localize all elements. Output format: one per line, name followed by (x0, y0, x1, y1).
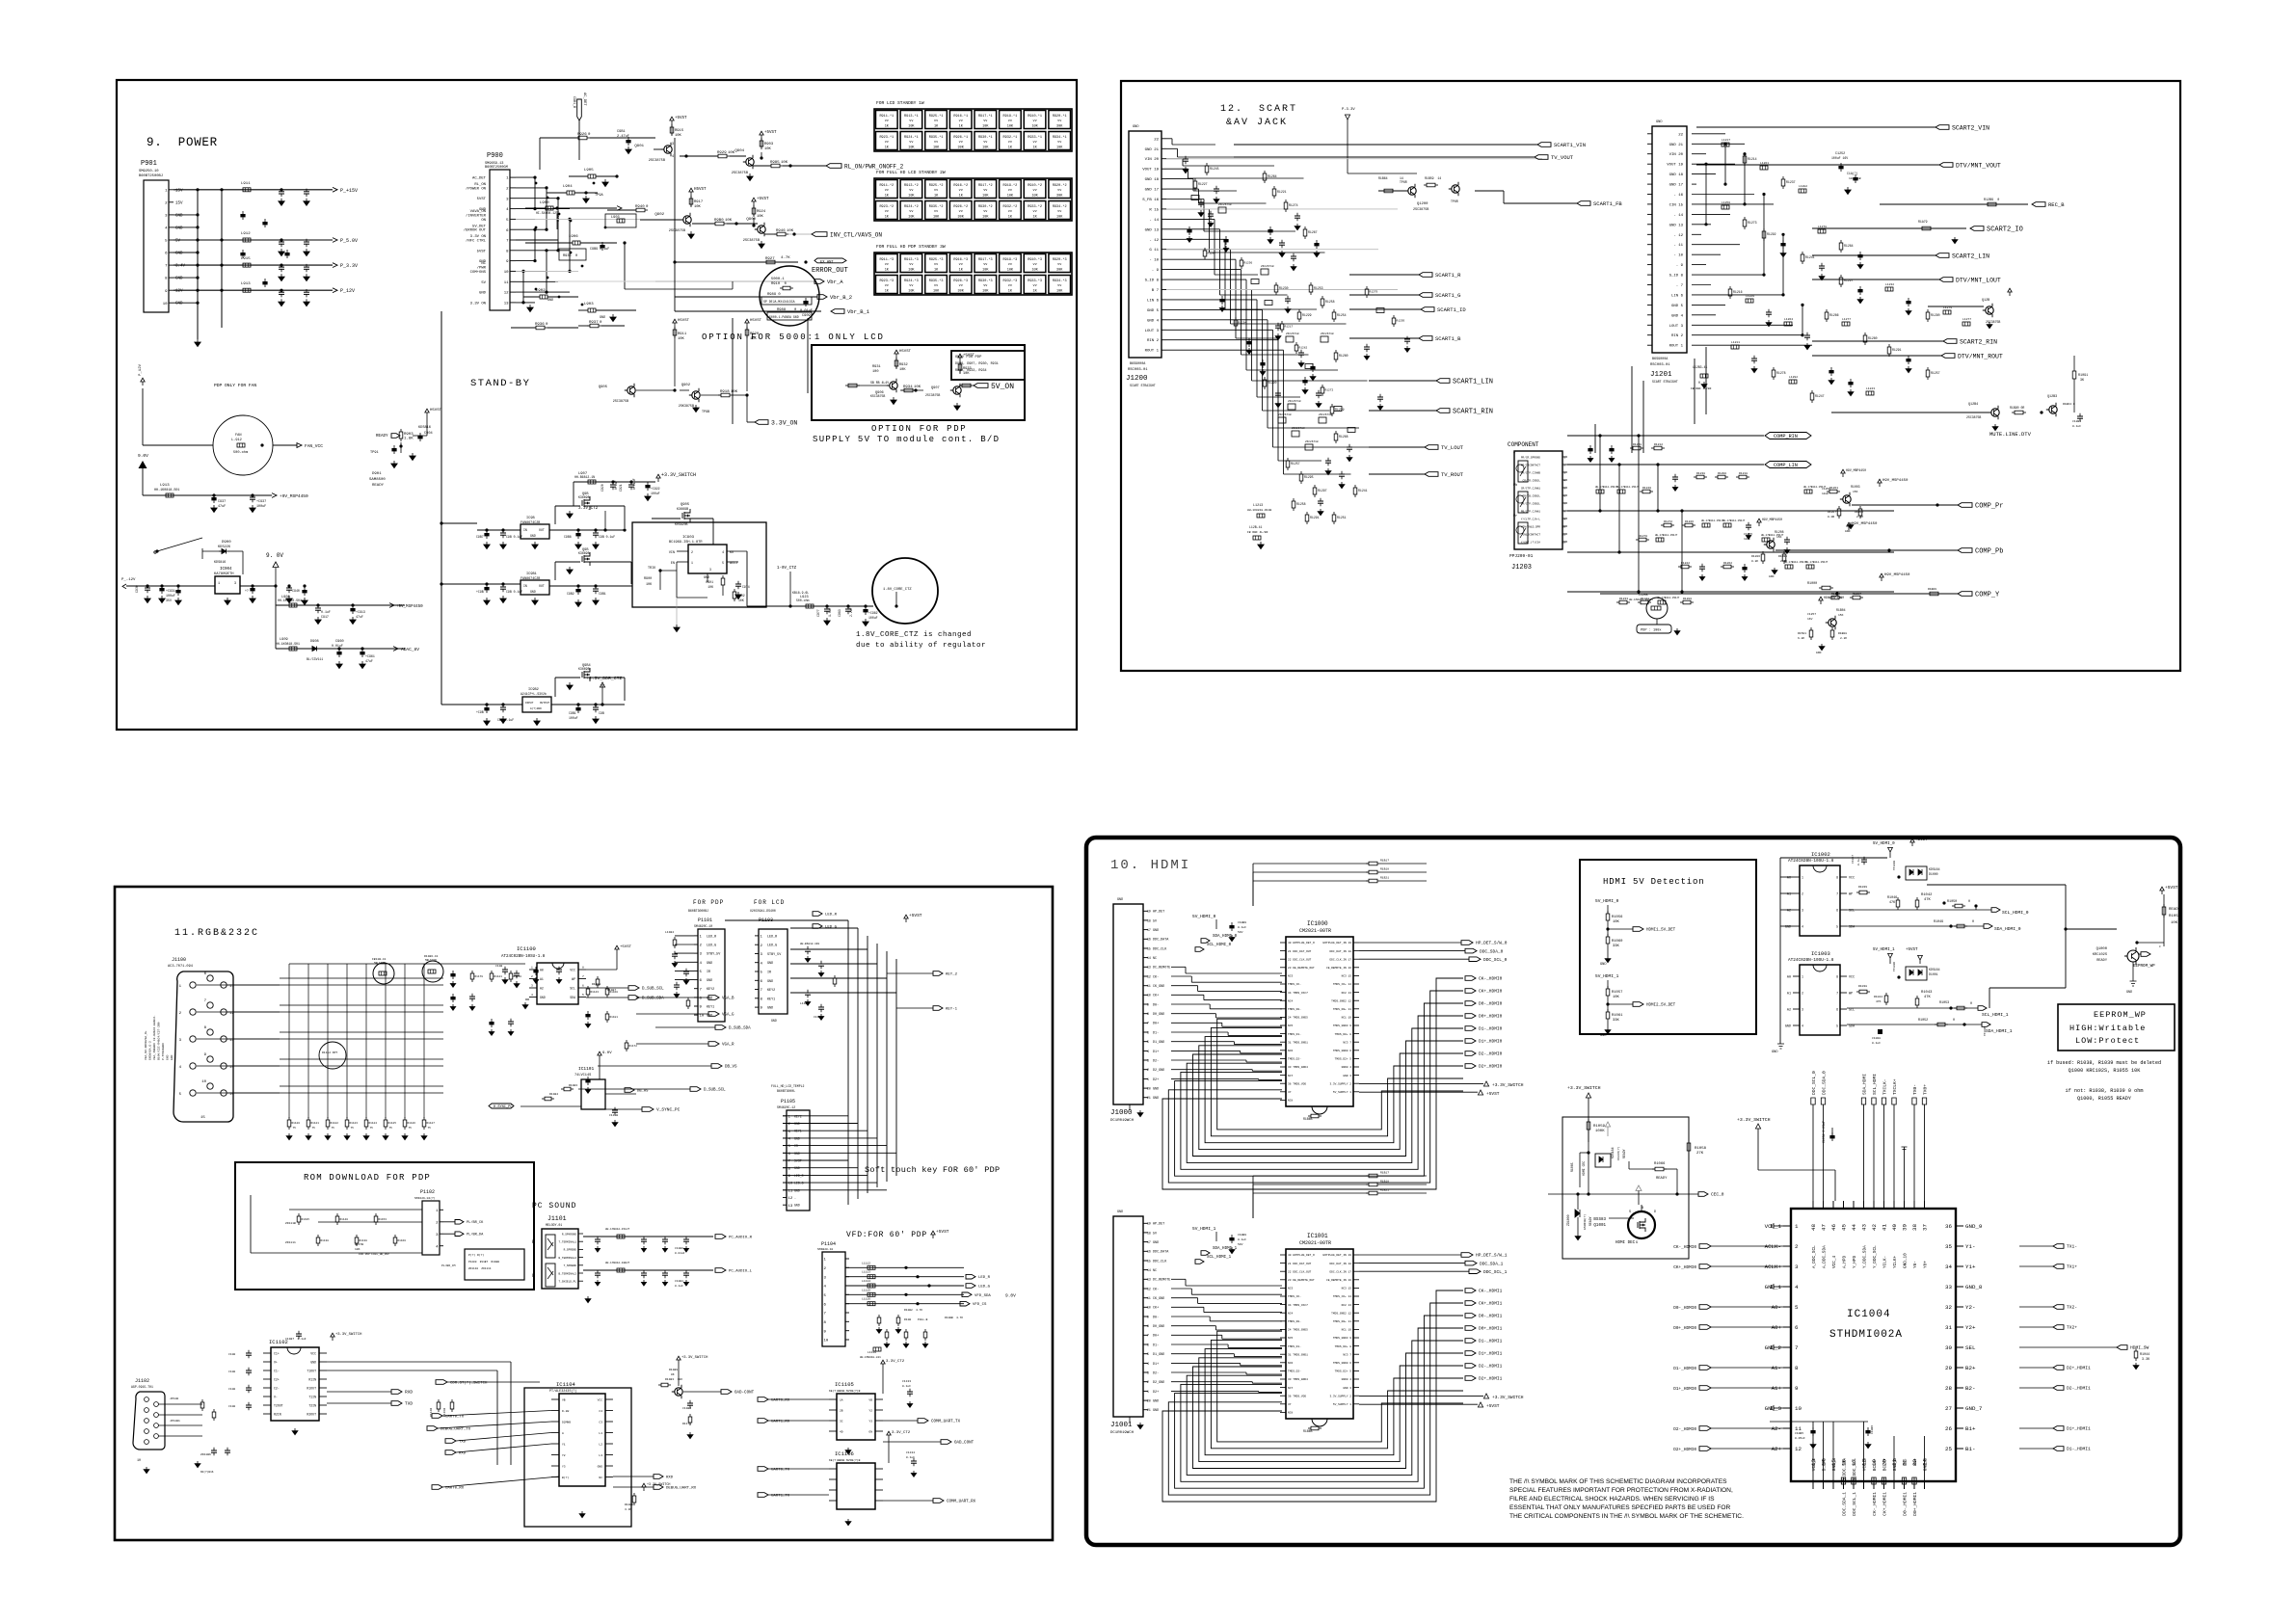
svg-text:R901: R901 (706, 580, 713, 584)
power 3.3V switch IC1004 (1737, 1117, 1835, 1201)
svg-text:SDA_HDMI_1: SDA_HDMI_1 (1213, 1247, 1238, 1251)
svg-text:KDS184: KDS184 (1611, 1147, 1615, 1158)
svg-text:KEY2: KEY2 (767, 989, 775, 993)
svg-text:10. HDMI: 10. HDMI (1110, 858, 1190, 873)
power 3.3V switch 0 (1359, 1081, 1524, 1088)
svg-text:P_+15V: P_+15V (340, 188, 358, 194)
svg-text:10: 10 (504, 271, 509, 275)
svg-text:IC9B1: IC9B1 (526, 572, 537, 576)
svg-text:+5VST: +5VST (936, 1229, 949, 1235)
svg-text:D2-_HDMI0: D2-_HDMI0 (1479, 1051, 1503, 1057)
svg-text:GND 13: GND 13 (1145, 228, 1160, 232)
capacitor C930 C931 (135, 584, 181, 604)
svg-text:NC5: NC5 (1288, 1024, 1293, 1027)
svg-text:C1134: C1134 (906, 1451, 915, 1454)
mosfet Q911 block3 (555, 664, 625, 701)
net SCART1_LIN (1369, 379, 1493, 386)
svg-text:D2_GND: D2_GND (1153, 1381, 1164, 1385)
svg-text:STBY_5V: STBY_5V (707, 953, 721, 957)
svg-text:GND: GND (1845, 530, 1851, 533)
svg-text:15K: 15K (1853, 491, 1858, 493)
svg-text:DB_VS: DB_VS (725, 1066, 737, 1070)
svg-text:ACLK-: ACLK- (1765, 1243, 1781, 1250)
svg-text:TP6R: TP6R (1400, 180, 1407, 184)
net D2-_HDMI1 (1465, 1364, 1503, 1370)
svg-text:GND 4: GND 4 (1671, 314, 1684, 318)
svg-text:H5VST: H5VST (430, 409, 442, 412)
svg-text:C11B7 0.1uF: C11B7 0.1uF (285, 1338, 307, 1341)
svg-text:75: 75 (312, 1127, 316, 1130)
svg-text:7: 7 (1147, 1334, 1149, 1338)
net pills IC1106 (758, 1467, 976, 1526)
svg-text:C1054 0.05uF: C1054 0.05uF (1822, 1121, 1826, 1143)
svg-text:33: 33 (1945, 1284, 1952, 1290)
svg-text:HH-17B012-15DJT: HH-17B012-15DJT (1784, 561, 1807, 564)
svg-text:GND_1: GND_1 (1765, 1284, 1782, 1290)
svg-text:TMDS_D2-: TMDS_D2- (1288, 1058, 1301, 1061)
table FOR LCD STANDBY 1W (874, 100, 1072, 151)
svg-text:vv: vv (1008, 141, 1012, 145)
svg-text:R936: R936 (535, 323, 545, 327)
svg-text:C3: C3 (599, 1422, 602, 1424)
svg-text:LED_R: LED_R (794, 1174, 804, 1178)
net DDC_SDA_0 (1359, 948, 1504, 954)
svg-text:LED_G: LED_G (707, 945, 716, 948)
svg-text:VGA_R2-GND&VGA_R+: VGA_R2-GND&VGA_R+ (145, 1030, 147, 1060)
net SCL_HDMI_0 pill (1991, 908, 2029, 916)
transistor Q1204 mute (1831, 395, 2083, 438)
svg-text:R1044: R1044 (1874, 996, 1882, 998)
power 5VST 0 (1359, 1090, 1500, 1097)
svg-text:HOTPLUG_DET_IN 19: HOTPLUG_DET_IN 19 (1323, 942, 1352, 945)
svg-text:R903: R903 (764, 143, 774, 146)
wire bus to option PDP (625, 288, 733, 290)
wire mesh component section (1567, 434, 1894, 593)
svg-text:30K: 30K (1056, 125, 1063, 129)
net +2.5V_DDR_CTZ (586, 676, 623, 706)
svg-text:TV_LOUT: TV_LOUT (1441, 444, 1464, 451)
svg-text:LED_R: LED_R (767, 935, 777, 939)
svg-text:/POWER ON: /POWER ON (466, 186, 487, 191)
svg-text:R917-*1: R917-*1 (978, 114, 993, 119)
svg-text:15: 15 (1147, 946, 1151, 950)
svg-text:OAD-CONT: OAD-CONT (734, 1392, 755, 1396)
svg-text:VCC: VCC (1849, 976, 1855, 980)
svg-text:48: 48 (1810, 1223, 1817, 1230)
panel 10 HDMI border (1086, 838, 2180, 1545)
svg-text:R932-*1: R932-*1 (1003, 135, 1018, 140)
svg-text:T1OUT: T1OUT (307, 1370, 316, 1373)
svg-text:PDP ONLY FOR FAN: PDP ONLY FOR FAN (214, 383, 256, 388)
svg-text:L903: L903 (611, 216, 620, 220)
net pills IC1104 left (427, 1380, 559, 1491)
svg-text:GND: GND (1153, 1097, 1159, 1101)
svg-text:CK-_HDMI1: CK-_HDMI1 (1479, 1289, 1503, 1294)
regulator IC904 KA7809ETH (214, 568, 307, 605)
svg-text:CK+: CK+ (1153, 995, 1159, 998)
svg-text:R1227: R1227 (1198, 182, 1208, 186)
svg-text:BSS83: BSS83 (1593, 1218, 1606, 1222)
svg-text:30K: 30K (958, 146, 965, 150)
net SCART1_VIN (1234, 142, 1586, 148)
svg-text:R913-*3: R913-*3 (904, 257, 919, 262)
svg-text:C1-: C1- (274, 1370, 280, 1373)
svg-text:Q905: Q905 (681, 503, 690, 507)
svg-text:R1181: R1181 (610, 1016, 619, 1019)
net INV_CTL/VAVS_ON (759, 229, 883, 249)
svg-text:47K: 47K (1876, 1000, 1882, 1003)
svg-text:HI-S4608-121: HI-S4608-121 (536, 211, 558, 215)
svg-text:R1262: R1262 (1723, 562, 1732, 565)
svg-text:2: 2 (691, 550, 693, 554)
svg-text:R930-*1: R930-*1 (978, 135, 993, 140)
IC IC1004 STHDMI002A (1765, 1201, 1983, 1489)
wire SCL bus to Q1000 (1927, 885, 2117, 988)
svg-text:L903: L903 (584, 303, 594, 306)
svg-text:10K: 10K (1031, 195, 1038, 199)
svg-text:2SC3875B: 2SC3875B (669, 229, 686, 233)
wire gray rails J1200 (1166, 158, 1542, 160)
svg-text:0.05uF: 0.05uF (1795, 1437, 1805, 1440)
svg-text:NC3 7: NC3 7 (1343, 1041, 1351, 1044)
net H.SYNC_PC (489, 1104, 514, 1109)
svg-text:6.8K: 6.8K (1798, 637, 1804, 640)
svg-text:- 16: - 16 (1673, 194, 1683, 198)
svg-text:75: 75 (370, 1127, 374, 1130)
svg-text:+C982: +C982 (868, 611, 878, 615)
svg-text:100uF: 100uF (569, 716, 578, 720)
svg-text:P1104: P1104 (821, 1241, 836, 1247)
svg-text:GND: GND (1117, 1211, 1123, 1214)
svg-text:B2+: B2+ (1965, 1365, 1976, 1371)
net D1+_HDMI0 (1465, 1039, 1503, 1045)
svg-text:2SC3875B: 2SC3875B (1966, 415, 1981, 419)
svg-text:10: 10 (824, 1340, 829, 1344)
svg-text:TX1+: TX1+ (2067, 1264, 2077, 1270)
svg-text:CK+_HDMI0: CK+_HDMI0 (1479, 989, 1503, 995)
svg-text:5: 5 (1795, 1304, 1799, 1311)
svg-text:12: 12 (1147, 1287, 1151, 1290)
svg-text:10: 10 (201, 1080, 206, 1084)
svg-text:C983: C983 (838, 609, 841, 617)
wire row 9V to MSP4450 (276, 586, 423, 649)
svg-text:11.RGB&232C: 11.RGB&232C (174, 928, 259, 939)
net D1-_HDMI0 (1465, 1026, 1503, 1032)
svg-text:vv: vv (1032, 263, 1036, 267)
svg-text:SCL_HDMI_1: SCL_HDMI_1 (1207, 1256, 1232, 1260)
svg-text:18: 18 (1147, 1231, 1151, 1235)
svg-text:D2-_HDMI1: D2-_HDMI1 (1479, 1364, 1503, 1370)
svg-text:THE /!\ SYMBOL MARK OF THIS SC: THE /!\ SYMBOL MARK OF THIS SCHEMETIC DI… (1509, 1478, 1727, 1485)
svg-text:ADAC_8V: ADAC_8V (401, 647, 419, 652)
svg-text:1: 1 (1802, 876, 1803, 880)
svg-text:33K: 33K (1613, 1019, 1620, 1023)
wire mesh J1100 rgb (241, 964, 525, 1118)
svg-text:4: 4 (672, 155, 674, 159)
svg-text:SCL_HDMI_0: SCL_HDMI_0 (1207, 944, 1232, 947)
svg-text:Y2: Y2 (562, 1454, 566, 1457)
svg-text:R917-*3: R917-*3 (978, 257, 993, 262)
wire row ADAC_8V (276, 638, 419, 669)
svg-text:+5VST: +5VST (963, 354, 975, 358)
svg-text:D1-: D1- (1153, 1031, 1159, 1035)
svg-text:R1274: R1274 (1289, 203, 1298, 207)
transistor Q1001 BSS83 HDMI CEC (1593, 1205, 1656, 1245)
svg-text:R915: R915 (675, 129, 684, 133)
svg-text:5000-1.PANDA GND: 5000-1.PANDA GND (769, 315, 799, 319)
resistor R940 (605, 205, 649, 227)
svg-text:SCART2_IO: SCART2_IO (1987, 226, 2023, 234)
svg-text:18: 18 (1147, 918, 1151, 922)
components J1200 mesh (1183, 156, 1368, 524)
svg-text:+5VST: +5VST (909, 913, 922, 918)
net DDC_SCL_1 (1359, 1269, 1508, 1275)
svg-text:2SC2671H: 2SC2671H (1288, 400, 1301, 403)
svg-text:C920: C920 (601, 484, 604, 492)
svg-text:R919-*1: R919-*1 (1003, 114, 1018, 119)
power 5VST IC1100 (495, 945, 632, 1009)
svg-text:TX2-: TX2- (2067, 1305, 2077, 1311)
svg-text:IC1004: IC1004 (1847, 1309, 1891, 1320)
net D2+_HDMI1 (1465, 1376, 1503, 1382)
svg-text:1.8K: 1.8K (404, 438, 414, 441)
svg-text:R1056: R1056 (1612, 916, 1623, 919)
svg-text:+?: +? (245, 589, 249, 593)
wire TMDS nested loops 0 (1162, 978, 1463, 1189)
svg-text:8: 8 (1795, 1365, 1799, 1371)
svg-text:7: 7 (1147, 1022, 1149, 1025)
svg-text:R1221: R1221 (1277, 190, 1287, 194)
svg-text:R926-*3: R926-*3 (953, 279, 968, 283)
svg-text:U20C0941-DS400: U20C0941-DS400 (750, 909, 776, 913)
wire gray rails P900 (516, 218, 640, 220)
svg-text:FB RBF 4L/BF: FB RBF 4L/BF (1247, 530, 1268, 534)
svg-text:100uF: 100uF (868, 616, 878, 620)
net SCART1_R (1349, 272, 1461, 279)
svg-text:ROUT 1: ROUT 1 (1145, 350, 1160, 354)
svg-text:B0-: B0- (1904, 1458, 1909, 1466)
svg-text:R1218: R1218 (1739, 472, 1748, 475)
svg-text:2: 2 (1147, 1068, 1149, 1072)
svg-text:C10B9: C10B9 (1871, 1425, 1874, 1434)
svg-text:41: 41 (1882, 1223, 1888, 1230)
svg-text:INPUT: INPUT (525, 702, 534, 705)
svg-text:C11B: C11B (228, 1388, 235, 1391)
svg-text:T1IN: T1IN (308, 1396, 316, 1399)
svg-text:HH-1K0818-R11B: HH-1K0818-R11B (1247, 509, 1271, 512)
svg-text:AC_DET: AC_DET (472, 177, 487, 181)
svg-text:R933: R933 (963, 367, 972, 371)
svg-text:A_DDC_SDA: A_DDC_SDA (1823, 1245, 1828, 1268)
svg-text:25: 25 (1945, 1446, 1952, 1452)
svg-text:LOW:Protect: LOW:Protect (2075, 1036, 2140, 1046)
svg-text:33K: 33K (1613, 945, 1620, 948)
svg-text:COMP_LIN: COMP_LIN (1774, 463, 1798, 468)
svg-text:Y2-: Y2- (1965, 1304, 1975, 1311)
svg-text:B6S9000A: B6S9000A (1652, 358, 1669, 361)
svg-text:1-0V_CTZ: 1-0V_CTZ (777, 567, 797, 571)
svg-text:C9B 0.1uF: C9B 0.1uF (506, 590, 522, 594)
svg-text:D0-: D0- (1153, 1316, 1159, 1319)
svg-text:vv: vv (983, 120, 987, 123)
svg-text:SCART1_ID: SCART1_ID (1437, 306, 1466, 313)
svg-text:VCC_1: VCC_1 (1765, 1223, 1782, 1230)
svg-text:11: 11 (229, 985, 234, 989)
svg-text:A2: A2 (1787, 1009, 1791, 1013)
svg-text:R1229: R1229 (1302, 313, 1312, 317)
svg-text:R11B3 10K: R11B3 10K (665, 1378, 682, 1381)
svg-text:SCL_HDMI_0: SCL_HDMI_0 (2002, 910, 2029, 916)
svg-text:GN: GN (868, 1431, 872, 1434)
resistor R937 (578, 321, 625, 328)
svg-text:TMDS_GND3 9: TMDS_GND3 9 (1333, 1024, 1351, 1027)
svg-text:GND: GND (1153, 929, 1159, 933)
svg-text:R916-*3: R916-*3 (953, 257, 968, 262)
svg-text:3.3V_CT2: 3.3V_CT2 (886, 1360, 905, 1364)
svg-text:GND 5: GND 5 (1147, 309, 1160, 313)
mosfet Q910 block2 (555, 548, 631, 584)
svg-text:3: 3 (1147, 1058, 1149, 1062)
svg-text:42: 42 (1871, 1223, 1878, 1230)
svg-text:CK-: CK- (1153, 1288, 1159, 1291)
svg-text:15: 15 (1147, 1259, 1151, 1263)
wire branch 3.3V (440, 521, 504, 705)
svg-text:47uF: 47uF (365, 659, 373, 663)
circle option 5000:1 (760, 266, 819, 326)
svg-text:GND_2: GND_2 (1765, 1344, 1782, 1351)
svg-text:40 HOTPLUG_DET_O: 40 HOTPLUG_DET_O (1288, 942, 1315, 945)
svg-text:R1280: R1280 (1339, 354, 1348, 358)
svg-text:+5VST: +5VST (2165, 885, 2178, 891)
svg-text:COMP_Pr: COMP_Pr (1975, 503, 2003, 511)
svg-text:UART0_RX: UART0_RX (445, 1487, 465, 1491)
svg-text:TMDS_D1-: TMDS_D1- (1288, 1033, 1301, 1036)
svg-text:FOR PDP: FOR PDP (693, 899, 724, 906)
svg-text:OUT: OUT (539, 528, 545, 532)
svg-text:Y0+: Y0+ (1924, 1261, 1929, 1268)
svg-text:L12B-41: L12B-41 (1249, 525, 1262, 529)
svg-text:R925-*2: R925-*2 (929, 183, 944, 188)
resistor R915 (670, 127, 674, 133)
inductor L900 (525, 201, 622, 229)
svg-text:R11B: R11B (904, 1318, 911, 1321)
svg-text:vv: vv (1057, 189, 1061, 193)
svg-text:SCART2_LIN: SCART2_LIN (1952, 253, 1989, 259)
svg-text:NC5: NC5 (1288, 1337, 1293, 1340)
svg-text:IC904: IC904 (220, 568, 232, 572)
svg-text:SM4B20-10: SM4B20-10 (817, 1248, 833, 1251)
svg-text:HH-1M0018-L01: HH-1M0018-L01 (860, 1356, 881, 1359)
svg-text:TMDS_GND2 12: TMDS_GND2 12 (1331, 1312, 1351, 1315)
svg-text:HH-17B012-10BJT: HH-17B012-10BJT (605, 1262, 629, 1264)
svg-text:V+: V+ (274, 1361, 278, 1365)
svg-text:GND: GND (1153, 1241, 1159, 1245)
svg-text:JP11B: JP11B (170, 1397, 178, 1400)
svg-text:DDC_SDA_1: DDC_SDA_1 (1842, 1492, 1848, 1516)
wire P1105 to bundle (783, 1116, 896, 1190)
svg-text:R985: R985 (770, 161, 780, 165)
svg-text:vv: vv (909, 263, 913, 267)
svg-text:4: 4 (1147, 1050, 1149, 1053)
svg-text:Y/CLTP_CJA-L: Y/CLTP_CJA-L (1521, 517, 1540, 520)
svg-text:5V_HDMI_0: 5V_HDMI_0 (1873, 842, 1895, 846)
svg-text:NC7: NC7 (1288, 1075, 1293, 1078)
svg-text:L1229: L1229 (1746, 295, 1754, 298)
svg-text:R913-*1: R913-*1 (904, 114, 919, 119)
svg-text:20: 20 (1147, 1087, 1151, 1091)
wire bundle J1000 to IC1000 (1171, 967, 1282, 1079)
svg-text:GS0B3W(?): GS0B3W(?) (1583, 1214, 1587, 1230)
svg-text:C11B: C11B (495, 965, 502, 968)
connector J1001 (1110, 1211, 1170, 1435)
svg-text:5V_DET: 5V_DET (472, 225, 487, 228)
svg-text:R1153: R1153 (379, 1218, 387, 1221)
svg-text:GND 18: GND 18 (1669, 173, 1684, 177)
svg-text:GND_8: GND_8 (1965, 1284, 1983, 1290)
svg-text:PPJ209-01: PPJ209-01 (1509, 553, 1534, 559)
svg-text:D1019(?): D1019(?) (1616, 1146, 1620, 1160)
wire vertical bus x648 (624, 243, 626, 289)
svg-text:R935 0: R935 0 (563, 254, 577, 258)
svg-text:D0_GND: D0_GND (1153, 1325, 1164, 1329)
svg-text:500-ohm: 500-ohm (233, 450, 248, 455)
svg-text:L906: L906 (569, 235, 578, 239)
net SCART1_FB (1475, 191, 1622, 207)
svg-text:HDMI2_5V_DET: HDMI2_5V_DET (1646, 1004, 1676, 1008)
svg-text:3.3V_SUPPLY 2: 3.3V_SUPPLY 2 (1329, 1395, 1351, 1397)
svg-text:R1217: R1217 (1285, 326, 1294, 329)
svg-text:5V: 5V (481, 281, 486, 285)
svg-text:C1257: C1257 (1807, 613, 1816, 616)
connector P900 (485, 152, 516, 310)
svg-text:8: 8 (1836, 876, 1838, 880)
resistor R10 pullups 0 (1253, 860, 1427, 907)
svg-text:KE(?)BB1B NVFB(?)B: KE(?)BB1B NVFB(?)B (829, 1458, 861, 1462)
svg-text:1.5uF: 1.5uF (828, 607, 832, 617)
svg-text:26: 26 (1945, 1425, 1952, 1432)
svg-text:5: 5 (1836, 925, 1838, 929)
net TV_LOUT (1369, 444, 1464, 451)
svg-text:A1: A1 (540, 977, 544, 981)
svg-text:HH-17B012-15AJT: HH-17B012-15AJT (605, 1228, 629, 1231)
svg-text:R1286: R1286 (1829, 313, 1839, 317)
svg-text:D2-_HDMI0: D2-_HDMI0 (1673, 1427, 1696, 1432)
net CK+_HDMI1 (1465, 1301, 1503, 1307)
svg-text:STHDMI002A: STHDMI002A (1829, 1329, 1903, 1341)
svg-text:R1290: R1290 (1268, 381, 1277, 385)
svg-text:10uF: 10uF (1744, 538, 1750, 541)
svg-text:P1101: P1101 (698, 918, 712, 923)
svg-text:10K: 10K (1007, 195, 1014, 199)
svg-text:47K: 47K (1924, 898, 1932, 902)
svg-text:IC1106: IC1106 (835, 1450, 854, 1457)
wire TMDS nested loops 1 (1162, 1290, 1463, 1502)
svg-text:DEBUG_UART_TX: DEBUG_UART_TX (441, 1428, 471, 1432)
net pills IC1104 right (613, 1475, 697, 1491)
svg-text:R11B8: R11B8 (625, 1503, 633, 1506)
connector J1101 pc sound jack (532, 1229, 583, 1289)
svg-text:R11B3: R11B3 (569, 1084, 577, 1087)
svg-text:100: 100 (872, 370, 878, 374)
svg-text:LED_R: LED_R (978, 1276, 991, 1280)
svg-text:10K: 10K (899, 368, 906, 372)
svg-text:KEY1: KEY1 (767, 998, 775, 1001)
svg-text:KEY-1: KEY-1 (946, 1008, 958, 1012)
svg-text:GND: GND (771, 1019, 777, 1023)
wire bundle J1001 to IC1001 (1171, 1279, 1282, 1392)
svg-text:R927: R927 (765, 257, 775, 261)
svg-text:vv: vv (909, 189, 913, 193)
